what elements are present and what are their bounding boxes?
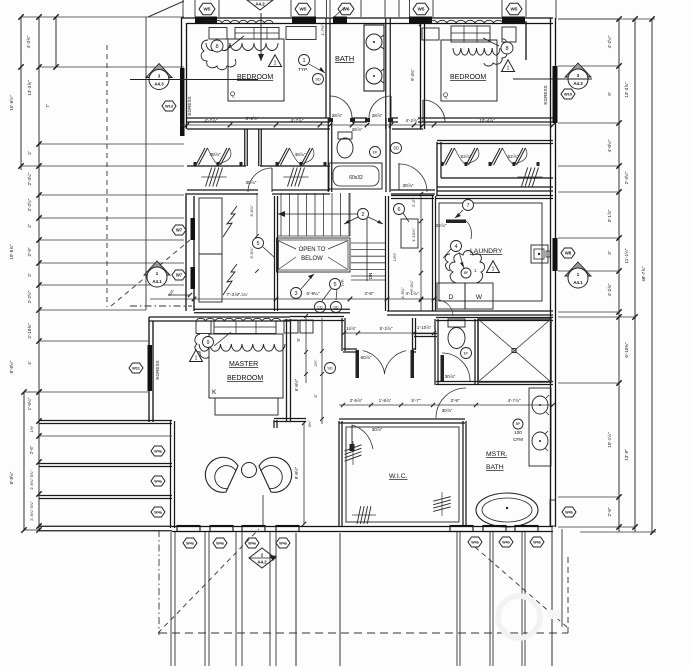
svg-text:Q: Q: [230, 91, 235, 98]
svg-text:2': 2': [27, 151, 32, 155]
svg-text:3'-9": 3'-9": [364, 291, 374, 296]
svg-text:W11: W11: [132, 365, 141, 370]
svg-text:TYP.: TYP.: [298, 67, 308, 73]
svg-text:3'-1⅞": 3'-1⅞": [607, 209, 612, 222]
svg-text:3': 3': [607, 251, 612, 255]
svg-text:9': 9': [296, 338, 301, 341]
svg-text:6'-10⅜": 6'-10⅜": [624, 342, 629, 358]
svg-text:1'-10⅞": 1'-10⅞": [411, 228, 416, 242]
svg-text:11'-1½": 11'-1½": [623, 248, 629, 263]
svg-text:32⅞": 32⅞": [435, 223, 446, 229]
svg-text:1½": 1½": [29, 425, 34, 433]
svg-text:W5: W5: [204, 7, 211, 12]
svg-text:3'-6⅞": 3'-6⅞": [249, 205, 254, 217]
svg-text:10'-4⅞": 10'-4⅞": [479, 118, 495, 123]
svg-text:OPEN TO: OPEN TO: [299, 247, 326, 253]
svg-text:BELOW: BELOW: [301, 256, 323, 262]
svg-text:4'-7⅞": 4'-7⅞": [291, 118, 304, 123]
svg-text:SD: SD: [315, 76, 321, 81]
svg-text:100: 100: [514, 430, 522, 435]
svg-text:W4b: W4b: [565, 510, 573, 514]
svg-text:60x32: 60x32: [349, 175, 363, 181]
svg-text:W10: W10: [564, 91, 572, 96]
svg-text:BEDROOM: BEDROOM: [237, 74, 273, 81]
svg-text:4'-9¼": 4'-9¼": [400, 287, 405, 299]
svg-text:13'-3⅞": 13'-3⅞": [27, 80, 32, 96]
svg-text:D: D: [449, 294, 454, 301]
svg-text:W13: W13: [165, 103, 174, 108]
svg-text:52⅞": 52⅞": [460, 154, 471, 160]
svg-text:W5: W5: [418, 7, 425, 12]
svg-text:W4a: W4a: [279, 541, 287, 545]
svg-text:8'-8½": 8'-8½": [8, 360, 14, 373]
svg-text:6'-0¼": 6'-0¼": [409, 280, 414, 292]
svg-text:BP: BP: [464, 271, 469, 275]
svg-text:4: 4: [454, 244, 457, 250]
svg-text:5: 5: [256, 241, 259, 247]
svg-text:W.I.C.: W.I.C.: [389, 473, 408, 480]
svg-text:8: 8: [215, 44, 218, 50]
svg-text:1: 1: [274, 61, 277, 67]
svg-text:28⅞": 28⅞": [332, 113, 343, 118]
svg-text:2'-6⅞" 5⅞": 2'-6⅞" 5⅞": [29, 501, 34, 521]
svg-text:10'-8⅞": 10'-8⅞": [9, 244, 14, 260]
svg-text:1: 1: [492, 267, 495, 273]
svg-text:28⅞": 28⅞": [372, 113, 383, 118]
svg-text:9: 9: [206, 340, 209, 346]
svg-text:W4a: W4a: [186, 541, 194, 545]
svg-text:2'-6⅞" 5⅞": 2'-6⅞" 5⅞": [29, 470, 34, 490]
svg-text:EF: EF: [464, 351, 470, 355]
svg-text:28⅞": 28⅞": [352, 127, 363, 132]
svg-text:9'-3¾": 9'-3¾": [410, 69, 415, 81]
svg-text:4'-0½": 4'-0½": [606, 139, 612, 152]
svg-text:A4.2: A4.2: [255, 1, 265, 6]
svg-text:W7: W7: [176, 228, 183, 233]
svg-text:MASTER: MASTER: [229, 361, 258, 368]
svg-text:W4a: W4a: [248, 541, 256, 545]
svg-text:7: 7: [466, 203, 469, 209]
svg-text:13'-3⅞": 13'-3⅞": [624, 82, 629, 98]
svg-text:48'-7⅞": 48'-7⅞": [641, 266, 646, 282]
svg-text:A4.3: A4.3: [154, 82, 164, 87]
svg-text:SD: SD: [327, 365, 333, 370]
svg-text:48⅞": 48⅞": [294, 152, 305, 158]
svg-text:15'-6½": 15'-6½": [8, 95, 14, 111]
svg-text:2'-2½": 2'-2½": [26, 198, 32, 211]
svg-text:1'-7½": 1'-7½": [320, 24, 325, 36]
svg-text:2'-2½": 2'-2½": [26, 290, 32, 303]
svg-text:W4a: W4a: [154, 479, 162, 483]
svg-text:A4.1: A4.1: [573, 280, 583, 285]
svg-text:K: K: [212, 389, 217, 396]
svg-text:W4a: W4a: [154, 510, 162, 514]
svg-text:2'-9": 2'-9": [27, 247, 32, 256]
svg-text:A4.1: A4.1: [152, 279, 162, 284]
svg-text:1: 1: [302, 58, 305, 64]
svg-text:30⅞": 30⅞": [445, 374, 456, 379]
svg-text:A4.2: A4.2: [257, 559, 267, 564]
svg-text:5'-7": 5'-7": [411, 398, 421, 403]
svg-text:4'-2½": 4'-2½": [606, 35, 612, 48]
svg-text:1: 1: [195, 356, 198, 362]
svg-text:1'-8⅞": 1'-8⅞": [379, 398, 392, 403]
svg-text:7': 7': [45, 104, 50, 108]
svg-text:SD: SD: [393, 146, 399, 151]
svg-text:2'-6": 2'-6": [29, 445, 34, 454]
svg-text:2: 2: [361, 212, 364, 218]
svg-text:4': 4': [168, 292, 172, 297]
svg-text:EGRESS: EGRESS: [155, 360, 160, 379]
svg-text:30⅞": 30⅞": [245, 180, 256, 186]
svg-text:2'-3½": 2'-3½": [623, 171, 629, 184]
svg-text:4'-2⅞": 4'-2⅞": [406, 118, 419, 123]
svg-text:BATH: BATH: [486, 464, 504, 471]
svg-text:8: 8: [505, 46, 508, 52]
svg-text:W6: W6: [343, 7, 350, 12]
svg-text:60⅞": 60⅞": [360, 355, 371, 361]
svg-text:2'-3½": 2'-3½": [26, 172, 32, 185]
svg-text:52⅞": 52⅞": [507, 154, 518, 160]
svg-text:W: W: [476, 294, 483, 301]
svg-text:Q: Q: [443, 92, 448, 99]
svg-text:6'-8½": 6'-8½": [294, 378, 299, 391]
svg-text:CFM: CFM: [513, 437, 523, 442]
svg-text:8'-8½": 8'-8½": [8, 471, 14, 484]
svg-text:1: 1: [507, 66, 510, 72]
svg-text:6'-9¼": 6'-9¼": [307, 291, 320, 296]
svg-text:9': 9': [607, 92, 612, 96]
svg-text:BATH: BATH: [335, 54, 354, 63]
svg-text:4'-7⅞": 4'-7⅞": [205, 118, 218, 123]
svg-text:W4b: W4b: [471, 540, 479, 544]
svg-text:4'-2⅞": 4'-2⅞": [607, 283, 612, 296]
svg-text:TYP.: TYP.: [341, 279, 345, 287]
svg-text:14½": 14½": [393, 252, 397, 261]
svg-text:W8: W8: [565, 251, 572, 256]
svg-text:10'-1½": 10'-1½": [606, 432, 612, 448]
svg-text:3'-6⅞": 3'-6⅞": [249, 247, 254, 259]
svg-text:EGRESS: EGRESS: [187, 96, 192, 115]
svg-text:3'-9": 3'-9": [450, 398, 460, 403]
svg-text:2½": 2½": [314, 359, 318, 366]
svg-text:5: 5: [333, 282, 336, 288]
svg-text:3½": 3½": [308, 420, 312, 427]
svg-text:1'-0½": 1'-0½": [26, 397, 32, 410]
svg-text:4': 4': [313, 394, 318, 397]
svg-text:3'-2½": 3'-2½": [246, 115, 259, 121]
svg-text:4'-7⅞": 4'-7⅞": [508, 398, 521, 403]
svg-text:4': 4': [27, 361, 32, 365]
svg-text:2'-5⅞": 2'-5⅞": [350, 398, 363, 403]
svg-text:7'-3⅞": 7'-3⅞": [227, 292, 240, 297]
svg-text:BP: BP: [516, 422, 521, 426]
svg-text:4'-1⅞": 4'-1⅞": [406, 291, 419, 296]
svg-text:2'-6": 2'-6": [607, 507, 612, 516]
svg-text:30⅞": 30⅞": [402, 183, 413, 189]
svg-text:EGRESS: EGRESS: [543, 85, 548, 104]
svg-text:EF: EF: [373, 150, 379, 154]
svg-text:2': 2': [27, 273, 32, 277]
svg-text:2'-3": 2'-3": [411, 198, 416, 207]
svg-text:5'-2⅞": 5'-2⅞": [380, 326, 393, 331]
svg-text:48⅞": 48⅞": [209, 152, 220, 158]
svg-text:MSTR.: MSTR.: [486, 451, 507, 458]
svg-text:14⅞": 14⅞": [346, 326, 357, 331]
svg-text:DN: DN: [368, 273, 373, 280]
svg-text:W4a: W4a: [154, 449, 162, 453]
svg-text:6: 6: [397, 207, 400, 213]
svg-text:W7: W7: [176, 273, 183, 278]
svg-text:30⅞": 30⅞": [372, 427, 383, 432]
svg-text:30⅞": 30⅞": [442, 408, 453, 413]
svg-text:13'-9": 13'-9": [624, 449, 629, 461]
svg-text:2'-10⅞": 2'-10⅞": [27, 323, 32, 339]
svg-text:W4b: W4b: [502, 540, 510, 544]
svg-text:1'-10⅞": 1'-10⅞": [417, 325, 432, 330]
svg-text:W4b: W4b: [533, 540, 541, 544]
svg-text:2': 2': [27, 224, 32, 228]
svg-text:A4.3: A4.3: [573, 81, 583, 86]
svg-text:W5: W5: [511, 7, 518, 12]
svg-text:BEDROOM: BEDROOM: [450, 74, 486, 81]
svg-text:4'-3⅞": 4'-3⅞": [26, 35, 31, 48]
svg-text:BEDROOM: BEDROOM: [227, 375, 263, 382]
svg-text:8'-8½": 8'-8½": [294, 466, 299, 479]
svg-text:W5: W5: [300, 7, 307, 12]
svg-text:W4a: W4a: [216, 541, 224, 545]
svg-text:3: 3: [294, 291, 297, 297]
